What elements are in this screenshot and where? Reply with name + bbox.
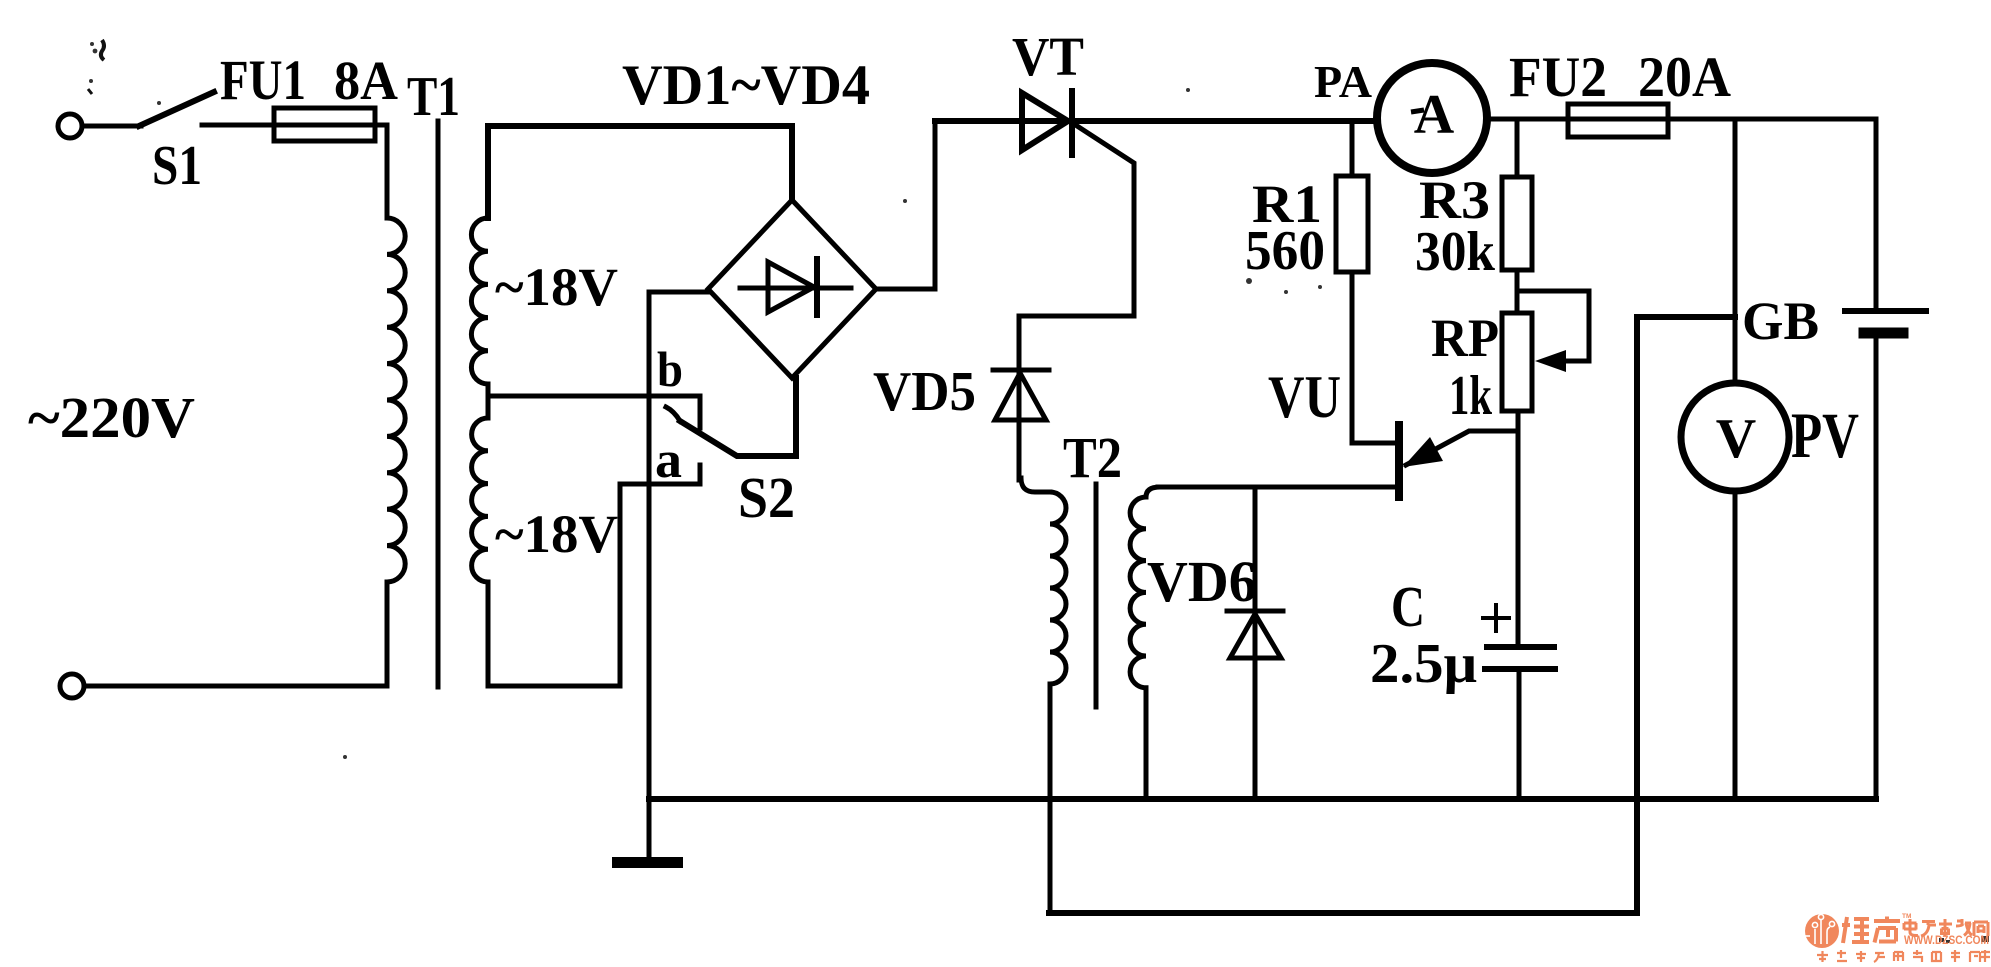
- svg-text:20A: 20A: [1638, 46, 1731, 109]
- svg-text:~18V: ~18V: [495, 257, 618, 317]
- svg-text:RP: RP: [1431, 308, 1499, 368]
- svg-text:PV: PV: [1791, 400, 1859, 472]
- svg-text:FU1: FU1: [220, 49, 306, 112]
- svg-text:2.5μ: 2.5μ: [1370, 633, 1477, 695]
- svg-text:C: C: [1391, 574, 1425, 639]
- svg-text:GB: GB: [1742, 291, 1819, 351]
- svg-text:VD1~VD4: VD1~VD4: [622, 54, 870, 117]
- svg-text:T2: T2: [1063, 425, 1122, 490]
- svg-text:30k: 30k: [1415, 221, 1496, 283]
- svg-text:VD5: VD5: [873, 361, 976, 423]
- svg-text:WWW.DZSC.COM: WWW.DZSC.COM: [1904, 935, 1989, 947]
- svg-text:V: V: [1716, 408, 1756, 470]
- svg-text:~220V: ~220V: [28, 385, 195, 450]
- svg-text:S2: S2: [738, 465, 795, 530]
- svg-text:TM: TM: [1902, 913, 1911, 920]
- svg-text:8A: 8A: [334, 50, 398, 111]
- svg-text:VU: VU: [1268, 364, 1341, 430]
- svg-text:~18V: ~18V: [495, 504, 618, 564]
- svg-text:S1: S1: [152, 135, 202, 197]
- svg-text:VT: VT: [1012, 26, 1084, 87]
- svg-text:T1: T1: [407, 66, 460, 128]
- svg-text:VD6: VD6: [1147, 549, 1257, 614]
- svg-text:a: a: [655, 432, 682, 489]
- svg-text:FU2: FU2: [1509, 46, 1607, 109]
- svg-text:PA: PA: [1314, 57, 1373, 107]
- svg-text:560: 560: [1245, 220, 1325, 282]
- svg-text:b: b: [657, 341, 683, 397]
- svg-text:A: A: [1414, 84, 1455, 146]
- svg-text:1k: 1k: [1449, 365, 1493, 427]
